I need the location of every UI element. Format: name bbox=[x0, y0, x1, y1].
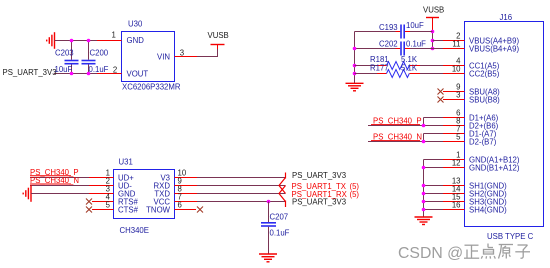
junction dots on left branch bbox=[353, 47, 357, 76]
ground (below C207) bbox=[259, 254, 277, 262]
pin 11 VBUS bbox=[433, 48, 444, 50]
pin 4 (U31 RTS#) bbox=[92, 201, 114, 203]
label PS_CH340_N (red, at U31 pin2) bbox=[30, 176, 79, 185]
wire (pin16 to bus) bbox=[424, 209, 444, 211]
capacitor C207 bbox=[261, 202, 290, 254]
wire (ground to pin3) bbox=[31, 193, 89, 195]
crossref chevron (TX) bbox=[279, 178, 286, 194]
terminator bar (V3 wire end) bbox=[285, 173, 287, 179]
no-connect X pin3 bbox=[438, 97, 444, 103]
wire (PS_CH340_P to pin8) bbox=[368, 125, 443, 127]
svg-text:10: 10 bbox=[452, 65, 461, 74]
capacitor C203 bbox=[55, 41, 79, 74]
svg-text:12: 12 bbox=[452, 159, 461, 168]
ground (J16 GND bus) bbox=[415, 217, 433, 225]
svg-text:GND: GND bbox=[127, 36, 145, 45]
svg-text:SH4(GND): SH4(GND) bbox=[469, 206, 507, 215]
pin 6 D1+ bbox=[443, 117, 465, 119]
svg-text:GND(B1+A12): GND(B1+A12) bbox=[469, 164, 520, 173]
svg-text:VIN: VIN bbox=[157, 53, 170, 62]
junction dots on VUSB bus bbox=[431, 30, 435, 51]
svg-text:CH340E: CH340E bbox=[120, 226, 149, 235]
svg-text:CSDN @: CSDN @ bbox=[398, 245, 463, 262]
svg-text:U30: U30 bbox=[128, 20, 143, 29]
pin 2 (U31 UD-) bbox=[89, 185, 114, 187]
wire (to pin7) bbox=[424, 133, 444, 135]
junction dot (N link) bbox=[422, 140, 426, 144]
svg-text:R177: R177 bbox=[370, 64, 389, 73]
svg-text:10uF: 10uF bbox=[406, 21, 424, 30]
junction dot (P link) bbox=[422, 124, 426, 128]
svg-text:0.1uF: 0.1uF bbox=[89, 65, 109, 74]
svg-text:VBUS(B4+A9): VBUS(B4+A9) bbox=[469, 45, 519, 54]
pin 1 GND bbox=[443, 159, 465, 161]
pin 3 (U30 VIN) bbox=[175, 56, 198, 58]
label PS_CH340_N (J16 side) bbox=[371, 133, 422, 142]
pin 4 CC1 bbox=[443, 65, 465, 67]
pin 1 (U31 UD+) bbox=[89, 177, 114, 179]
wire (PS_CH340_N to pin2) bbox=[30, 185, 89, 187]
pin 10 (U31 V3) bbox=[175, 177, 198, 179]
svg-text:16: 16 bbox=[452, 201, 461, 210]
svg-text:VUSB: VUSB bbox=[208, 31, 229, 40]
pin 14 SH2 bbox=[443, 193, 465, 195]
pin 6 (U31 TNOW) bbox=[175, 209, 197, 211]
capacitor C200 bbox=[82, 41, 109, 74]
resistor R181 bbox=[355, 55, 444, 70]
pin 8 (U31 TXD) bbox=[175, 193, 198, 195]
wire (VUSB vertical bus) bbox=[432, 32, 434, 49]
crossref chevron (RX) bbox=[279, 186, 286, 202]
ground (left-facing, at U31 pin3) bbox=[23, 185, 31, 202]
svg-text:D2-(B7): D2-(B7) bbox=[469, 138, 497, 147]
svg-text:CTS#: CTS# bbox=[118, 206, 139, 215]
wire (RXD net) bbox=[197, 185, 286, 187]
pin 3 (U31 GND) bbox=[89, 193, 114, 195]
pin 3 SBU bbox=[443, 99, 465, 101]
wire (GND net top wire) bbox=[55, 40, 98, 42]
junction dots on C203/C200 bbox=[70, 39, 91, 76]
wire (pin12 to bus) bbox=[424, 167, 444, 169]
pin 9 (U31 RXD) bbox=[175, 185, 198, 187]
svg-text:XC6206P332MR: XC6206P332MR bbox=[122, 83, 181, 92]
terminator bar (VCC wire end) bbox=[285, 201, 287, 208]
svg-text:C202: C202 bbox=[379, 39, 398, 48]
svg-text:VUSB: VUSB bbox=[423, 5, 444, 14]
svg-text:PS_UART_3V3: PS_UART_3V3 bbox=[292, 171, 346, 180]
junction dots GND bus bbox=[422, 166, 426, 212]
svg-text:J16: J16 bbox=[500, 13, 513, 22]
svg-text:5.1K: 5.1K bbox=[401, 64, 418, 73]
svg-text:USB TYPE C: USB TYPE C bbox=[487, 232, 534, 241]
pin 7 (U31 VCC) bbox=[175, 201, 198, 203]
resistor R177 bbox=[355, 64, 444, 78]
no-connect X pin5 bbox=[86, 207, 92, 213]
J16-SECTION bbox=[346, 5, 544, 241]
svg-text:SBU(B8): SBU(B8) bbox=[469, 96, 500, 105]
svg-text:10uF: 10uF bbox=[55, 65, 73, 74]
wire (PS_CH340_P to pin1) bbox=[30, 177, 89, 179]
U31-SECTION bbox=[23, 158, 359, 262]
svg-text:PS_UART_3V3: PS_UART_3V3 bbox=[292, 198, 346, 207]
pin 16 SH4 bbox=[443, 209, 465, 211]
no-connect X pin6 bbox=[197, 207, 203, 213]
pin 15 SH3 bbox=[443, 201, 465, 203]
WATERMARK bbox=[398, 244, 530, 263]
svg-text:(5): (5) bbox=[350, 190, 360, 199]
pin 9 SBU bbox=[443, 91, 465, 93]
svg-text:11: 11 bbox=[452, 40, 460, 49]
svg-text:C203: C203 bbox=[55, 48, 74, 57]
connector J16 bbox=[465, 13, 544, 241]
pin 12 GND bbox=[443, 167, 465, 169]
ground (left branch) bbox=[346, 83, 364, 91]
U30-SECTION bbox=[3, 20, 229, 92]
wire (left VUSB branch vertical) bbox=[354, 32, 356, 84]
svg-text:TNOW: TNOW bbox=[146, 206, 170, 215]
svg-text:5: 5 bbox=[456, 133, 461, 142]
svg-text:C207: C207 bbox=[270, 212, 289, 221]
svg-text:PS_UART_3V3: PS_UART_3V3 bbox=[3, 68, 57, 77]
junction dot (C207 tap) bbox=[267, 200, 271, 204]
capacitor C202 bbox=[355, 39, 433, 55]
svg-text:C200: C200 bbox=[90, 48, 109, 57]
pin 1 (U30 GND) bbox=[97, 40, 122, 42]
svg-text:0.1uF: 0.1uF bbox=[270, 228, 290, 237]
svg-text:3: 3 bbox=[180, 48, 184, 57]
no-connect X pin4 bbox=[86, 199, 92, 205]
watermark char YUAN bbox=[499, 245, 514, 259]
no-connect X pin9 bbox=[438, 89, 444, 95]
svg-text:U31: U31 bbox=[119, 158, 133, 167]
wire (TXD net) bbox=[197, 193, 286, 195]
ground (left-facing, at top wire of U30 input) bbox=[47, 32, 55, 49]
wire (pin14 to bus) bbox=[424, 193, 444, 195]
wire (VIN to VUSB) bbox=[197, 49, 218, 57]
svg-text:CC2(B5): CC2(B5) bbox=[469, 70, 500, 79]
svg-text:5: 5 bbox=[106, 201, 111, 210]
power VUSB (J16 side) bbox=[423, 5, 444, 31]
wire (PS_CH340_N to pin5) bbox=[368, 141, 443, 143]
wire (PS_UART_3V3 bottom wire) bbox=[54, 73, 97, 75]
watermark char DIAN bbox=[481, 244, 495, 259]
chip U31 bbox=[114, 158, 175, 236]
svg-text:C193: C193 bbox=[379, 23, 398, 32]
wire (vertical link pin7-pin5) bbox=[423, 134, 425, 142]
watermark char ZHENG bbox=[464, 245, 479, 258]
pin 5 D2- bbox=[443, 141, 465, 143]
svg-text:5.1K: 5.1K bbox=[401, 55, 418, 64]
capacitor C193 bbox=[355, 21, 433, 39]
pin 10 CC2 bbox=[443, 73, 465, 75]
watermark char ZI bbox=[515, 245, 530, 258]
regulator U30 bbox=[122, 20, 181, 92]
pin 13 SH1 bbox=[443, 185, 465, 187]
label PS_CH340_P (J16 side) bbox=[371, 117, 422, 126]
wire (pin13 to bus) bbox=[424, 185, 444, 187]
power VUSB (U30 side) bbox=[208, 31, 229, 49]
svg-text:VOUT: VOUT bbox=[127, 69, 149, 78]
wire (pin15 to bus) bbox=[424, 201, 444, 203]
pin 8 D2+ bbox=[443, 125, 465, 127]
pin 2 VBUS bbox=[433, 40, 444, 42]
wire (GND bus vertical) bbox=[423, 160, 425, 217]
svg-text:0.1uF: 0.1uF bbox=[406, 39, 426, 48]
wire (vertical link pin6-pin8) bbox=[423, 118, 425, 126]
wire (to pin6) bbox=[424, 117, 444, 119]
pin 7 D1- bbox=[443, 133, 465, 135]
wire (V3 net) bbox=[197, 177, 286, 179]
svg-text:6: 6 bbox=[178, 201, 182, 210]
pin 2 (U30 VOUT) bbox=[97, 73, 122, 75]
wire (VCC net) bbox=[197, 201, 286, 203]
svg-text:2: 2 bbox=[113, 65, 117, 74]
svg-text:1: 1 bbox=[111, 31, 115, 40]
wire (pin1 to bus) bbox=[424, 159, 444, 161]
pin 5 (U31 CTS#) bbox=[92, 209, 114, 211]
svg-text:R181: R181 bbox=[370, 55, 389, 64]
svg-text:3: 3 bbox=[456, 91, 460, 100]
label PS_CH340_P (red, at U31 pin1) bbox=[30, 168, 79, 177]
